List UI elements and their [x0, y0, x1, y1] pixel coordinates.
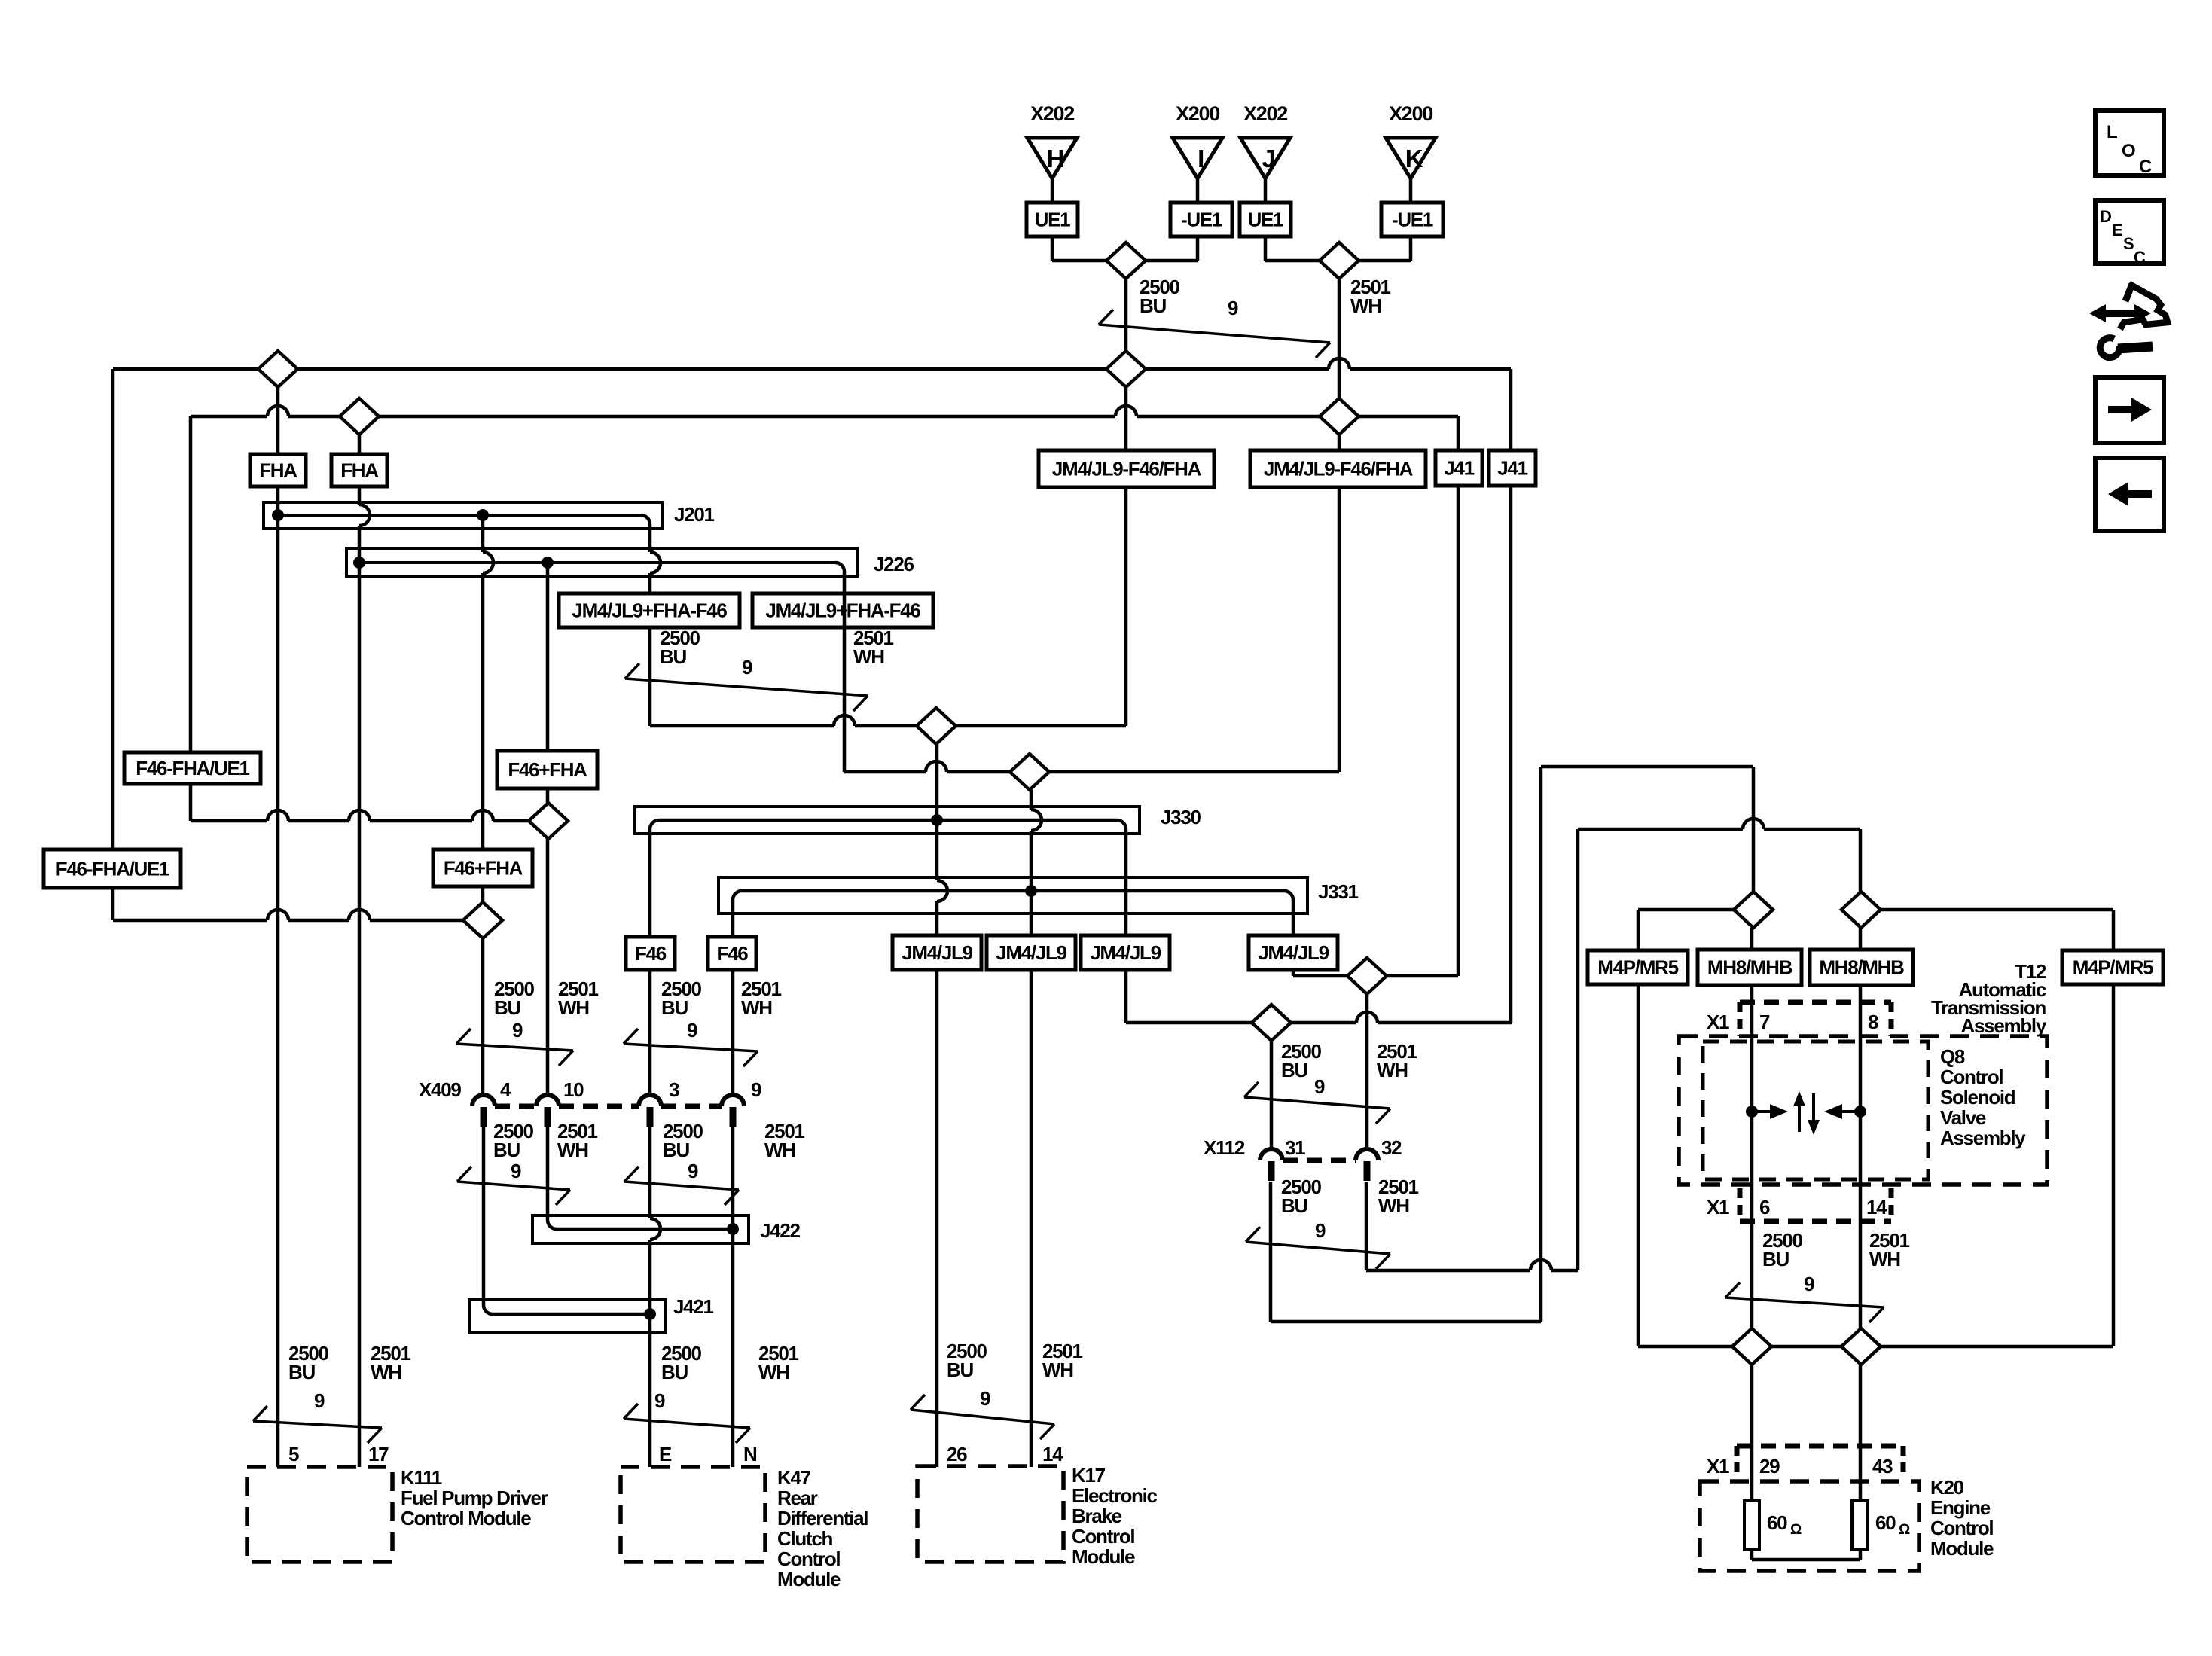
- off-page connector triangle H (X202): [1027, 102, 1077, 178]
- junction diamond WH y=1025: [1010, 754, 1049, 790]
- svg-text:C: C: [2139, 157, 2152, 177]
- label 2500 BU K47: [661, 1342, 701, 1383]
- svg-text:JM4/JL9: JM4/JL9: [1090, 941, 1161, 964]
- junction dot J330: [931, 814, 943, 826]
- label 2501 WH above X112: [1377, 1040, 1417, 1081]
- svg-text:WH: WH: [557, 1139, 588, 1161]
- harness label -UE1 (K): [1381, 203, 1443, 236]
- harness label -UE1 (I): [1170, 203, 1232, 236]
- svg-text:N: N: [743, 1443, 757, 1465]
- harness label M4P/MR5 (2): [2062, 950, 2163, 984]
- inline connector X1 pins 29-43: [1707, 1446, 1903, 1479]
- svg-text:WH: WH: [758, 1361, 789, 1383]
- module K111 Fuel Pump Driver Control Module: [247, 1466, 548, 1562]
- harness label JM4/JL9 (3): [1081, 935, 1170, 970]
- splice diamond 2501 top: [1320, 242, 1359, 279]
- wire WH box to corner y=1025: [1338, 487, 1341, 772]
- wire J41-2 vertical: [1509, 369, 1513, 1023]
- wire FHA-2 (2501 WH) vertical: [359, 435, 370, 1467]
- svg-text:X1: X1: [1707, 1196, 1729, 1218]
- harness label MH8/MHB (2): [1810, 950, 1913, 985]
- svg-text:M4P/MR5: M4P/MR5: [2073, 956, 2153, 979]
- junction dot J226-drop: [542, 557, 554, 569]
- harness label UE1 (J): [1240, 203, 1291, 236]
- svg-text:JM4/JL9: JM4/JL9: [1258, 941, 1329, 964]
- inline connector X409: [419, 1078, 761, 1127]
- wire -UE1(I) down and left to splice diamond: [1146, 236, 1198, 261]
- junction diamond 2500 y=1358: [1252, 1005, 1291, 1041]
- wire link y=1018: [1541, 765, 1753, 769]
- label 2501 WH under J226 box2: [853, 627, 893, 668]
- wire 2500 BU J201 curl to JM4 label: [650, 529, 661, 726]
- svg-text:JM4/JL9: JM4/JL9: [996, 941, 1066, 964]
- wire 2501 WH riser x=2470: [1859, 829, 1863, 892]
- wire BU box to corner y=964: [1124, 487, 1128, 726]
- wire 2500 BU from trunk A to JM4 box: [1124, 387, 1128, 450]
- gauge slash K20: [1725, 1282, 1884, 1322]
- svg-text:Clutch: Clutch: [777, 1527, 833, 1550]
- pin E K47: [659, 1443, 672, 1465]
- svg-text:6: 6: [1759, 1196, 1770, 1218]
- svg-text:WH: WH: [558, 996, 589, 1019]
- svg-text:Control: Control: [1072, 1525, 1134, 1548]
- svg-text:BU: BU: [1281, 1194, 1307, 1217]
- junction diamond 2500 on trunk A: [1106, 351, 1146, 387]
- solenoid arrow up: [1793, 1091, 1805, 1132]
- svg-text:E: E: [2112, 221, 2122, 239]
- svg-text:E: E: [659, 1443, 672, 1465]
- gauge label 9 below X409-b: [688, 1160, 698, 1182]
- gauge slash K17: [911, 1395, 1054, 1439]
- solenoid arrow left: [1824, 1104, 1860, 1119]
- gauge label 9 below X409-a: [511, 1160, 521, 1182]
- svg-text:L: L: [2107, 122, 2117, 142]
- wire BU J330 right curl down: [1124, 834, 1128, 1023]
- harness label FHA (WH): [331, 454, 387, 486]
- trunk wire C (2501 WH, y=1090): [191, 810, 529, 821]
- svg-text:BU: BU: [663, 1139, 689, 1161]
- svg-text:K: K: [1405, 145, 1423, 172]
- trunk wire B (2501 WH, y=553): [191, 406, 1458, 416]
- wire K to -UE1: [1409, 178, 1413, 203]
- svg-text:X202: X202: [1243, 102, 1287, 125]
- svg-text:WH: WH: [853, 645, 884, 668]
- svg-text:BU: BU: [288, 1361, 315, 1383]
- svg-text:Solenoid: Solenoid: [1940, 1086, 2015, 1109]
- junction dot J422: [727, 1223, 739, 1235]
- gauge slash below X409-a: [457, 1167, 570, 1205]
- svg-text:WH: WH: [741, 996, 772, 1019]
- svg-text:8: 8: [1868, 1011, 1878, 1033]
- off-page connector triangle K (X200): [1386, 102, 1436, 178]
- svg-text:Module: Module: [1072, 1545, 1135, 1568]
- junction diamond MH8 BU: [1734, 892, 1773, 928]
- svg-text:JM4/JL9: JM4/JL9: [902, 941, 972, 964]
- wire 2500 BU drop J201 to X409 pin4: [483, 515, 493, 1095]
- svg-text:9: 9: [1314, 1075, 1325, 1098]
- gauge slash below X112: [1246, 1227, 1390, 1269]
- wire WH J331 right curl down: [1292, 913, 1295, 976]
- label 2501 WH above X409-b: [741, 977, 781, 1019]
- wire -UE1(K) down to splice diamond: [1359, 236, 1411, 261]
- svg-text:Module: Module: [1930, 1537, 1994, 1560]
- pin 14 K17: [1042, 1443, 1063, 1465]
- svg-text:BU: BU: [493, 1139, 520, 1161]
- junction diamond FHA-1 on trunk A: [258, 351, 297, 387]
- gauge slash K47: [624, 1404, 750, 1443]
- gauge label 9 above X112: [1314, 1075, 1325, 1098]
- wire 2500 BU to X112 pin31: [1270, 1041, 1274, 1150]
- wire WH diamond1025 to K17 pin14: [1031, 790, 1042, 1467]
- label 2501 WH K47: [758, 1342, 798, 1383]
- svg-text:-UE1: -UE1: [1392, 209, 1433, 231]
- label J201: [674, 503, 714, 526]
- label 2501 WH top: [1350, 276, 1390, 317]
- label J330: [1161, 806, 1201, 828]
- trunk wire D (2500 BU, y=1222): [113, 910, 463, 920]
- svg-text:FHA: FHA: [259, 459, 297, 482]
- svg-text:9: 9: [980, 1387, 990, 1410]
- solenoid arrow right: [1752, 1104, 1788, 1119]
- wire BU diamond964 to K17 pin26: [937, 744, 947, 1467]
- label J422: [760, 1219, 800, 1242]
- svg-text:Rear: Rear: [777, 1487, 818, 1509]
- svg-text:Engine: Engine: [1930, 1496, 1991, 1519]
- inline connector X112: [1204, 1136, 1402, 1181]
- svg-text:9: 9: [1228, 297, 1238, 319]
- harness label JM4/JL9-F46/FHA (BU): [1039, 450, 1214, 487]
- wire 2500 BU from top diamond to trunk A: [1124, 279, 1128, 351]
- label 2500 BU above X112: [1281, 1040, 1321, 1081]
- svg-text:9: 9: [314, 1389, 325, 1412]
- svg-text:Electronic: Electronic: [1072, 1484, 1158, 1507]
- svg-text:32: 32: [1381, 1136, 1402, 1159]
- wire H to UE1: [1051, 178, 1054, 203]
- label Q8 Control Solenoid Valve Assembly: [1940, 1045, 2026, 1149]
- svg-text:WH: WH: [1042, 1359, 1073, 1381]
- svg-text:J201: J201: [674, 503, 714, 526]
- svg-text:X200: X200: [1389, 102, 1432, 125]
- junction diamond FHA-2 on trunk B: [340, 398, 379, 435]
- splice pack J422: [532, 1215, 749, 1243]
- svg-text:4: 4: [500, 1078, 511, 1101]
- junction diamond line D: [463, 902, 502, 938]
- label 2500 BU above X409-a: [494, 977, 534, 1019]
- wire FHA-1 (2500 BU) vertical: [276, 387, 280, 1467]
- svg-text:BU: BU: [1281, 1059, 1307, 1081]
- svg-text:S: S: [2123, 234, 2134, 253]
- wire 2501 WH drop J226 to X409 pin10: [546, 563, 550, 1095]
- svg-text:F46-FHA/UE1: F46-FHA/UE1: [136, 757, 249, 779]
- wire riser x=2095: [1576, 829, 1580, 1270]
- label 2500 BU below X409-b: [663, 1120, 703, 1161]
- resistor 60ohm right: [1852, 1501, 1910, 1550]
- icon LOC: [2095, 111, 2164, 177]
- svg-text:X112: X112: [1204, 1136, 1245, 1159]
- wire diamond to M4P/MR5-2: [1881, 910, 2113, 1346]
- inline connector X1 pins 7-8: [1707, 1002, 1891, 1036]
- wire BU J330 left curl to X409 pin3: [648, 834, 652, 1095]
- svg-text:WH: WH: [764, 1139, 795, 1161]
- svg-text:MH8/MHB: MH8/MHB: [1819, 956, 1904, 979]
- svg-text:UE1: UE1: [1035, 209, 1071, 231]
- svg-text:UE1: UE1: [1248, 209, 1284, 231]
- wire X409 pin9 to K47 pinN: [731, 1127, 735, 1467]
- junction diamond K20 WH: [1841, 1328, 1881, 1365]
- off-page connector triangle J (X202): [1240, 102, 1290, 178]
- harness label F46-FHA/UE1 (2): [44, 849, 181, 888]
- label 2501 WH below X409-a: [557, 1120, 597, 1161]
- solenoid valve box inner: [1703, 1041, 1928, 1179]
- harness label M4P/MR5 (1): [1588, 950, 1688, 984]
- splice pack J330: [635, 807, 1140, 834]
- gauge slash J226 pair: [625, 663, 868, 711]
- svg-text:J422: J422: [760, 1219, 800, 1242]
- wire 2500 BU riser x=2328: [1752, 767, 1756, 892]
- junction diamond line C: [529, 803, 568, 839]
- svg-text:BU: BU: [947, 1359, 973, 1381]
- harness label F46+FHA (1): [497, 751, 597, 788]
- svg-text:BU: BU: [494, 996, 520, 1019]
- harness label F46 (WH): [708, 937, 756, 970]
- gauge slash above X409-a: [456, 1029, 573, 1066]
- label 2500 BU above X409-b: [661, 977, 701, 1019]
- gauge label 9 K111: [314, 1389, 325, 1412]
- gauge label 9 above X409-a: [512, 1019, 523, 1041]
- svg-text:J421: J421: [673, 1295, 713, 1318]
- svg-text:MH8/MHB: MH8/MHB: [1707, 956, 1792, 979]
- harness label JM4/JL9-F46/FHA (WH): [1250, 450, 1426, 487]
- module K47 Rear Differential Clutch Control Module: [621, 1466, 868, 1590]
- svg-text:X202: X202: [1030, 102, 1074, 125]
- label 2500 BU under J226 box1: [660, 627, 700, 668]
- wire X409 pin4 to J421: [482, 1127, 486, 1305]
- harness label JM4/JL9 (1): [892, 935, 981, 970]
- pin N K47: [743, 1443, 757, 1465]
- harness label JM4/JL9 (2): [987, 935, 1075, 970]
- svg-text:JM4/JL9+FHA-F46: JM4/JL9+FHA-F46: [572, 599, 727, 622]
- pin 5 K111: [288, 1443, 299, 1465]
- svg-text:WH: WH: [1378, 1194, 1409, 1217]
- gauge slash below X409-b: [624, 1167, 739, 1205]
- wire UE1(J) down to splice diamond: [1265, 236, 1321, 261]
- label 2500 BU top: [1140, 276, 1179, 317]
- svg-text:F46+FHA: F46+FHA: [508, 758, 587, 781]
- module K17 Electronic Brake Control Module: [917, 1464, 1158, 1568]
- svg-text:J330: J330: [1161, 806, 1201, 828]
- gauge label 9 K17: [980, 1387, 990, 1410]
- svg-text:60: 60: [1767, 1511, 1787, 1534]
- junction diamond 2501 y=1296: [1347, 958, 1387, 994]
- svg-text:BU: BU: [1140, 294, 1166, 317]
- wire link y=1788: [1638, 1345, 2113, 1349]
- svg-text:F46-FHA/UE1: F46-FHA/UE1: [56, 858, 169, 880]
- junction dot J331: [1025, 885, 1037, 897]
- junction dot J201-FHA1: [272, 509, 284, 521]
- svg-text:J41: J41: [1497, 457, 1527, 480]
- assembly box Q8 outer: [1679, 1036, 2047, 1185]
- svg-text:Differential: Differential: [777, 1507, 868, 1529]
- label 2500 BU below X409-a: [493, 1120, 533, 1161]
- svg-text:9: 9: [1804, 1273, 1814, 1295]
- label 2500 BU below Q8: [1762, 1229, 1802, 1270]
- wire X409 pin10 to J422: [546, 1127, 550, 1220]
- svg-text:FHA: FHA: [340, 459, 379, 482]
- icon arrow right: [2095, 377, 2164, 443]
- off-page connector triangle I (X200): [1173, 102, 1222, 178]
- svg-text:-UE1: -UE1: [1181, 209, 1222, 231]
- svg-text:9: 9: [511, 1160, 521, 1182]
- splice pack J226: [346, 548, 857, 576]
- svg-text:C: C: [2134, 248, 2146, 267]
- label 2500 BU K111: [288, 1342, 328, 1383]
- wire UE1(H) down and right to splice diamond: [1052, 236, 1107, 261]
- svg-text:X1: X1: [1707, 1455, 1729, 1478]
- svg-text:BU: BU: [661, 1361, 688, 1383]
- svg-text:K17: K17: [1072, 1464, 1106, 1487]
- wire y=1296 J41-1 to JM4 (4): [1293, 974, 1458, 978]
- svg-text:K47: K47: [777, 1466, 811, 1489]
- svg-text:JM4/JL9-F46/FHA: JM4/JL9-F46/FHA: [1264, 458, 1414, 480]
- harness label J41 (2): [1489, 450, 1536, 486]
- svg-text:WH: WH: [1377, 1059, 1408, 1081]
- svg-text:BU: BU: [1762, 1248, 1789, 1270]
- svg-text:WH: WH: [371, 1361, 401, 1383]
- wire link BU y=964: [650, 715, 1126, 726]
- svg-text:Control: Control: [777, 1548, 840, 1570]
- svg-text:3: 3: [669, 1078, 679, 1101]
- label 2500 BU below X112: [1281, 1176, 1321, 1217]
- svg-text:F46: F46: [717, 942, 749, 965]
- gauge label 9 K20: [1804, 1273, 1814, 1295]
- gauge slash top: [1099, 310, 1330, 358]
- svg-text:Assembly: Assembly: [1940, 1127, 2026, 1149]
- junction dot J201-drop: [477, 509, 489, 521]
- splice pack J421: [469, 1300, 666, 1333]
- label 2501 WH K111: [371, 1342, 410, 1383]
- module K20 Engine Control Module: [1700, 1476, 1994, 1571]
- svg-text:K20: K20: [1930, 1476, 1964, 1499]
- harness label F46-FHA/UE1 (1): [124, 752, 261, 784]
- svg-text:X200: X200: [1176, 102, 1219, 125]
- harness label F46+FHA (2): [433, 849, 532, 886]
- svg-text:WH: WH: [1869, 1248, 1900, 1270]
- svg-text:Control Module: Control Module: [401, 1507, 531, 1529]
- label T12 Automatic Transmission Assembly: [1931, 960, 2047, 1037]
- svg-text:O: O: [2122, 141, 2135, 161]
- gauge slash above X409-b: [624, 1029, 758, 1066]
- gauge label 9 top: [1228, 297, 1238, 319]
- svg-text:14: 14: [1866, 1196, 1887, 1218]
- svg-text:K111: K111: [401, 1466, 442, 1489]
- wire riser x=2046: [1539, 767, 1543, 1322]
- wire 2501 WH from top diamond to trunk B: [1338, 279, 1341, 398]
- wire 2501 WH to X112 pin32: [1365, 994, 1369, 1150]
- wire X112 pin31 down-right to T12: [1271, 1182, 1541, 1322]
- svg-text:J331: J331: [1318, 880, 1358, 903]
- harness label J41 (1): [1436, 450, 1482, 486]
- svg-text:Control: Control: [1940, 1066, 2003, 1088]
- junction diamond K20 BU: [1732, 1328, 1771, 1365]
- label J421: [673, 1295, 713, 1318]
- label 2500 BU K17: [947, 1340, 987, 1381]
- label 2501 WH above X409-a: [558, 977, 598, 1019]
- svg-text:J41: J41: [1444, 457, 1474, 480]
- wire 2501 WH from trunk B to JM4 box: [1338, 435, 1341, 450]
- svg-text:9: 9: [751, 1078, 761, 1101]
- svg-text:43: 43: [1872, 1455, 1893, 1478]
- svg-text:J: J: [1262, 145, 1274, 172]
- label 2501 WH below Q8: [1869, 1229, 1909, 1270]
- svg-text:9: 9: [687, 1019, 697, 1041]
- wire MH8-BU to Q8: [1750, 928, 1754, 1501]
- wire diamond to M4P/MR5-1: [1638, 910, 1734, 1346]
- svg-text:M4P/MR5: M4P/MR5: [1597, 956, 1678, 979]
- wire J41-1 vertical: [1457, 416, 1460, 976]
- svg-text:9: 9: [688, 1160, 698, 1182]
- solenoid coil dot left: [1746, 1106, 1758, 1118]
- svg-text:BU: BU: [661, 996, 688, 1019]
- svg-text:29: 29: [1759, 1455, 1780, 1478]
- gauge slash above X112: [1244, 1082, 1390, 1124]
- wire link WH y=1025: [844, 761, 1339, 772]
- junction diamond BU y=964: [917, 708, 956, 744]
- svg-text:14: 14: [1042, 1443, 1063, 1465]
- svg-text:17: 17: [368, 1443, 389, 1465]
- harness label FHA (BU): [250, 454, 306, 486]
- svg-text:Ω: Ω: [1899, 1522, 1910, 1538]
- svg-text:F46+FHA: F46+FHA: [444, 857, 523, 880]
- solenoid arrow down: [1808, 1093, 1820, 1135]
- svg-text:Ω: Ω: [1790, 1522, 1802, 1538]
- wire MH8-WH to Q8: [1859, 928, 1863, 1501]
- svg-text:BU: BU: [660, 645, 686, 668]
- splice pack J201: [264, 502, 662, 529]
- icon arrow left: [2095, 458, 2164, 531]
- harness label JM4/JL9 (4): [1249, 935, 1338, 970]
- junction diamond MH8 WH: [1841, 892, 1881, 928]
- wire 2501 WH J226 curl down: [843, 576, 847, 772]
- svg-text:Fuel Pump Driver: Fuel Pump Driver: [401, 1487, 548, 1509]
- harness label UE1 (H): [1027, 203, 1078, 236]
- svg-text:9: 9: [654, 1389, 665, 1412]
- svg-text:Control: Control: [1930, 1517, 1993, 1539]
- svg-text:Assembly: Assembly: [1961, 1014, 2047, 1037]
- svg-text:5: 5: [288, 1443, 299, 1465]
- svg-text:9: 9: [512, 1019, 523, 1041]
- svg-text:31: 31: [1285, 1136, 1305, 1159]
- label J226: [874, 553, 914, 575]
- label 2501 WH K17: [1042, 1340, 1082, 1381]
- solenoid coil dot right: [1854, 1106, 1866, 1118]
- gauge label 9 K47: [654, 1389, 665, 1412]
- wire WH J331 left curl to X409 pin9: [731, 913, 735, 1095]
- splice diamond 2500 top: [1106, 242, 1146, 279]
- wire X409 pin3 to K47 pinE: [650, 1127, 661, 1467]
- wire I to -UE1: [1196, 178, 1200, 203]
- svg-text:I: I: [1198, 145, 1204, 172]
- gauge slash K111: [253, 1406, 382, 1443]
- svg-text:WH: WH: [1350, 294, 1381, 317]
- wire left drop trunk B: [189, 416, 193, 821]
- junction diamond 2501 on trunk B: [1320, 398, 1359, 435]
- svg-text:Valve: Valve: [1940, 1106, 1986, 1129]
- resistor 60ohm left: [1744, 1501, 1802, 1550]
- gauge label 9 J226 pair: [742, 656, 752, 679]
- svg-text:60: 60: [1875, 1511, 1896, 1534]
- svg-text:Q8: Q8: [1940, 1045, 1965, 1068]
- svg-text:JM4/JL9-F46/FHA: JM4/JL9-F46/FHA: [1052, 458, 1202, 480]
